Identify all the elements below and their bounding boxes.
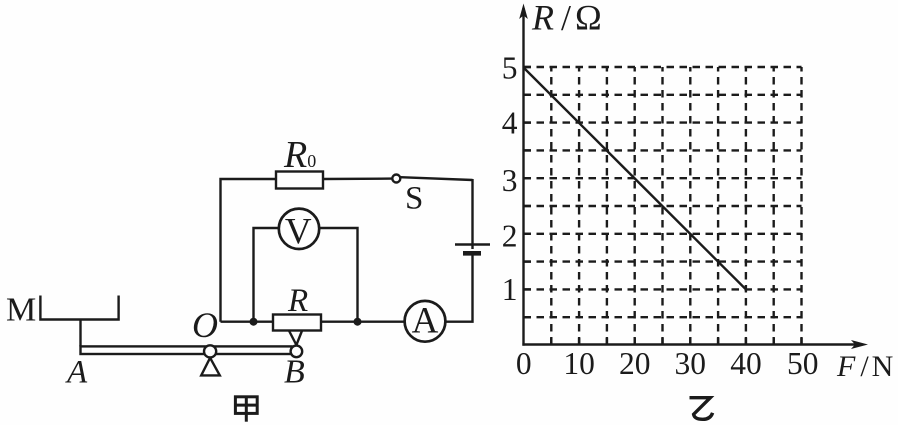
svg-text:50: 50 [787, 346, 819, 381]
svg-text:2: 2 [502, 219, 518, 254]
svg-text:30: 30 [675, 346, 707, 381]
svg-text:R/Ω: R/Ω [531, 0, 602, 38]
svg-text:F/N: F/N [836, 350, 893, 383]
svg-text:1: 1 [502, 272, 518, 307]
svg-text:10: 10 [563, 346, 595, 381]
svg-text:R: R [287, 283, 308, 319]
svg-text:3: 3 [502, 163, 518, 198]
svg-text:20: 20 [619, 346, 651, 381]
svg-text:4: 4 [502, 106, 518, 141]
svg-text:A: A [412, 301, 439, 342]
svg-text:0: 0 [516, 346, 532, 381]
svg-text:A: A [65, 355, 88, 391]
svg-text:5: 5 [502, 51, 518, 86]
svg-text:B: B [284, 354, 305, 391]
svg-text:O: O [192, 305, 218, 345]
svg-text:S: S [405, 181, 423, 217]
svg-text:V: V [285, 212, 312, 253]
svg-text:40: 40 [730, 346, 762, 381]
svg-text:M: M [6, 292, 36, 329]
